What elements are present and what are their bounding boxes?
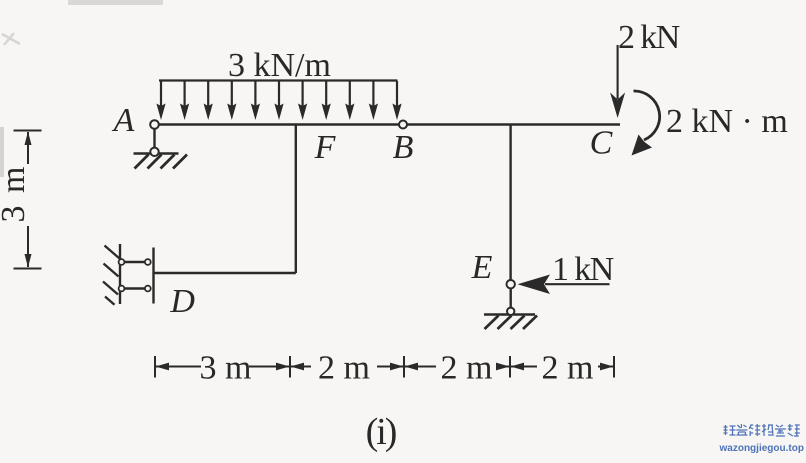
svg-text:C: C: [590, 125, 613, 162]
svg-text:wazongjiegou.top: wazongjiegou.top: [719, 443, 804, 454]
svg-text:B: B: [393, 129, 414, 166]
svg-text:F: F: [314, 129, 337, 166]
svg-text:E: E: [471, 249, 493, 286]
svg-text:(i): (i): [366, 411, 396, 453]
svg-text:2 kN · m: 2 kN · m: [666, 103, 788, 140]
svg-text:2 m: 2 m: [318, 350, 370, 387]
svg-text:1 kN: 1 kN: [552, 251, 614, 288]
svg-text:2 m: 2 m: [542, 350, 594, 387]
svg-text:3 m: 3 m: [0, 165, 32, 223]
svg-text:3 m: 3 m: [200, 350, 252, 387]
svg-text:2 kN: 2 kN: [618, 19, 680, 56]
svg-text:A: A: [112, 102, 135, 139]
svg-text:3 kN/m: 3 kN/m: [228, 47, 331, 84]
svg-text:2 m: 2 m: [441, 350, 493, 387]
svg-text:D: D: [169, 283, 195, 320]
